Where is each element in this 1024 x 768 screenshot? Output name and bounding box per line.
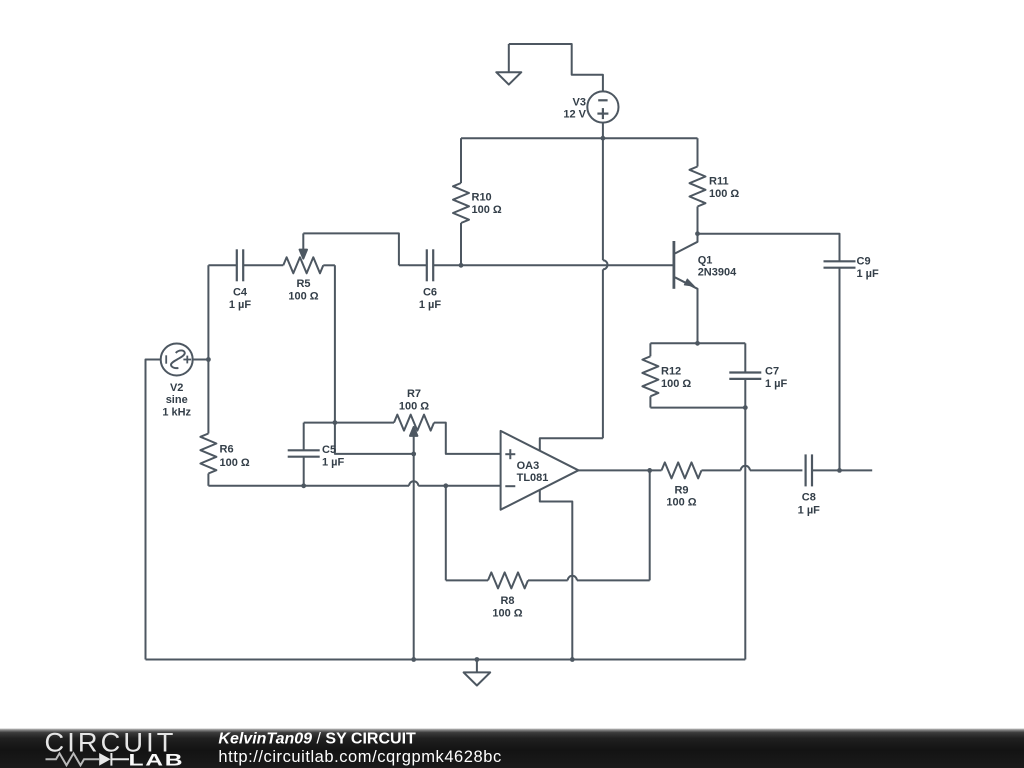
potentiometer R7 xyxy=(394,415,434,431)
wire V2 right xyxy=(193,359,209,361)
wire C4 to V2 node xyxy=(207,265,209,359)
CircuitLab logo LAB xyxy=(129,751,185,768)
svg-text:TL081: TL081 xyxy=(517,472,549,484)
potentiometer R5 xyxy=(283,257,323,273)
resistor R12 xyxy=(649,343,651,356)
svg-text:1 µF: 1 µF xyxy=(857,268,880,280)
svg-text:C5: C5 xyxy=(322,444,336,456)
capacitor C6 xyxy=(399,264,427,266)
wire op-amp V- to ground xyxy=(540,490,573,660)
logo resistor-diode glyph xyxy=(46,753,100,765)
capacitor C9 xyxy=(824,260,856,262)
node V3 junction xyxy=(601,136,606,141)
wire hop over V- line xyxy=(568,576,577,581)
svg-text:2N3904: 2N3904 xyxy=(698,267,737,279)
transistor Q1 xyxy=(673,241,676,289)
svg-text:http://circuitlab.com/cqrgpmk4: http://circuitlab.com/cqrgpmk4628bc xyxy=(218,748,501,766)
svg-text:C4: C4 xyxy=(233,287,248,299)
svg-text:R9: R9 xyxy=(674,484,688,496)
wire to R8 xyxy=(445,486,447,581)
capacitor C5 xyxy=(303,423,305,451)
node R10 junction xyxy=(459,263,464,268)
node R8 branch junction xyxy=(443,483,448,488)
svg-text:R8: R8 xyxy=(500,595,514,607)
wire emitter rail xyxy=(650,342,745,344)
svg-text:100 Ω: 100 Ω xyxy=(220,457,250,469)
svg-text:R6: R6 xyxy=(220,444,234,456)
wire ground to V3 minus xyxy=(509,44,603,91)
resistor R6 xyxy=(207,360,209,434)
svg-text:100 Ω: 100 Ω xyxy=(709,188,739,200)
wire op-amp output xyxy=(578,469,661,471)
svg-text:C8: C8 xyxy=(802,491,816,503)
wire R7 wiper down xyxy=(413,435,415,660)
resistor R8 xyxy=(446,579,488,581)
wire R5 wiper to C6 xyxy=(303,233,399,265)
svg-text:1 µF: 1 µF xyxy=(322,457,345,469)
wire hop over C7 line xyxy=(741,466,750,471)
wire bottom ground rail xyxy=(146,659,746,661)
svg-text:R10: R10 xyxy=(472,191,492,203)
node output junction xyxy=(647,468,652,473)
ground GND1 (top) xyxy=(508,44,510,72)
svg-text:1 kHz: 1 kHz xyxy=(162,406,191,418)
resistor R9 xyxy=(662,462,702,478)
wire base line xyxy=(433,264,674,266)
wire V3 node to op-amp V+ xyxy=(602,138,604,260)
node wiper bottom xyxy=(411,657,416,662)
svg-text:100 Ω: 100 Ω xyxy=(492,607,522,619)
svg-text:100 Ω: 100 Ω xyxy=(661,378,691,390)
wire V2 left xyxy=(146,360,161,660)
wire C5 to R7 xyxy=(304,422,394,424)
op-amp OA3 xyxy=(501,431,579,510)
node C5-R7 junction xyxy=(333,420,338,425)
wire R7 to op-amp plus xyxy=(434,423,501,454)
svg-text:R7: R7 xyxy=(407,388,421,400)
svg-text:KelvinTan09 / SY CIRCUIT: KelvinTan09 / SY CIRCUIT xyxy=(218,731,416,748)
node V2 junction xyxy=(206,357,211,362)
capacitor C4 xyxy=(208,264,237,266)
svg-text:12 V: 12 V xyxy=(563,109,586,121)
node ground junction xyxy=(475,657,480,662)
wire collector to C9 xyxy=(698,234,840,262)
resistor R11 xyxy=(697,138,699,166)
svg-text:100 Ω: 100 Ω xyxy=(399,401,429,413)
svg-text:100 Ω: 100 Ω xyxy=(288,291,318,303)
wire R5 terminal down xyxy=(335,265,414,454)
voltage source V2 xyxy=(161,344,193,376)
voltage source V3 xyxy=(587,91,618,122)
node collector junction xyxy=(695,231,700,236)
resistor R10 xyxy=(460,138,462,183)
svg-text:1 µF: 1 µF xyxy=(419,299,442,311)
svg-text:100 Ω: 100 Ω xyxy=(666,496,696,508)
wire minus input rail xyxy=(208,485,409,487)
ground GND2 (bottom) xyxy=(476,660,478,673)
svg-text:Q1: Q1 xyxy=(698,255,713,267)
svg-text:C7: C7 xyxy=(765,366,779,378)
wire hop over wiper xyxy=(409,481,418,486)
capacitor C8 xyxy=(804,454,806,486)
svg-text:C9: C9 xyxy=(857,256,871,268)
svg-text:R5: R5 xyxy=(296,278,310,290)
svg-text:C6: C6 xyxy=(423,287,437,299)
wire V3 to rail xyxy=(602,123,604,139)
svg-text:1 µF: 1 µF xyxy=(765,378,788,390)
node R7 wiper junction xyxy=(411,452,416,457)
node emitter junction xyxy=(695,341,700,346)
wire hop at base wire xyxy=(603,260,608,269)
svg-text:R12: R12 xyxy=(661,366,681,378)
svg-text:V3: V3 xyxy=(573,97,586,109)
node V- bottom xyxy=(570,657,575,662)
node C9 bottom junction xyxy=(837,468,842,473)
svg-text:1 µF: 1 µF xyxy=(229,299,252,311)
svg-text:V2: V2 xyxy=(170,382,183,394)
svg-text:100 Ω: 100 Ω xyxy=(472,204,502,216)
node C5 bottom junction xyxy=(301,483,306,488)
svg-text:OA3: OA3 xyxy=(517,460,540,472)
svg-text:R11: R11 xyxy=(709,175,729,187)
svg-text:sine: sine xyxy=(166,394,188,406)
wire C7 bottom to ground rail xyxy=(744,408,746,660)
svg-text:1 µF: 1 µF xyxy=(798,504,821,516)
node C7 bottom junction xyxy=(743,405,748,410)
wire top rail xyxy=(461,137,698,139)
capacitor C7 xyxy=(744,343,746,372)
wire R12 C7 bottom xyxy=(650,407,745,409)
svg-text:LAB: LAB xyxy=(129,751,185,768)
